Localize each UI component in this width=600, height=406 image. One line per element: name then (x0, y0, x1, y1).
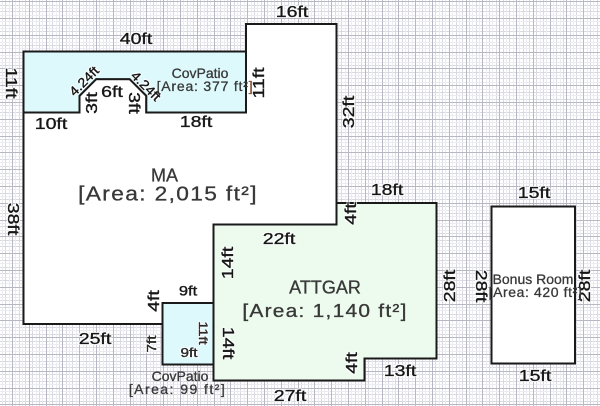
room Bonus Room (492, 207, 576, 364)
dimension label 18ft at (386.5,190.5) (370, 182, 403, 200)
dimension label 4.24ft at (146,85.5) (128, 68, 164, 104)
dimension label 3ft at (92.5,103) (84, 92, 102, 114)
dimension label 4ft at (352,214) (343, 203, 361, 225)
room label [Area: 377 ft² at (205,85.5) (157, 78, 254, 94)
dimension label 14ft at (227,343) (218, 327, 236, 360)
dimension label 4ft at (352.5,363) (344, 352, 362, 374)
dimension label 10ft at (51,124.5) (35, 116, 68, 134)
room label Bonus Room at (533,278.5) (493, 271, 574, 287)
room ATTGAR (green) (214, 203, 437, 381)
room label [Area: 2,015 ft²] at (168,195) (78, 184, 258, 207)
dimension label 28ft at (480,285.5) (471, 269, 489, 302)
dimension label 15ft at (535,377) (519, 368, 552, 386)
dimension label 4.24ft at (84,80.5) (66, 63, 102, 99)
room CovPatio top (cyan) (24, 52, 247, 113)
dimension label 13ft at (400,372) (384, 363, 417, 381)
room MA outline (24, 24, 337, 324)
dimension label 25ft at (94.5,339.5) (78, 331, 111, 349)
dimension label 7ft at (151.5,343.5) (145, 335, 159, 352)
dimension label 18ft at (196,122.5) (180, 114, 213, 132)
room label ATTGAR at (325,288) (289, 278, 361, 299)
dimension label 16ft at (292,12.5) (276, 4, 309, 22)
room label [Area: 1,140 ft²] at (324.5,310.5) (242, 300, 407, 322)
dimension label 11ft at (260,82.5) (251, 67, 269, 98)
dimension label 4ft at (154.5,300.5) (146, 290, 164, 312)
dimension label 40ft at (136,39.5) (120, 31, 153, 49)
dimension label 11ft at (202.5,332.5) (196, 321, 210, 344)
dimension label 6ft at (112,92.5) (101, 84, 123, 102)
dimension label 32ft at (350,111.5) (341, 95, 359, 128)
dimension label 14ft at (228.5,263) (220, 247, 238, 280)
dimension label 15ft at (533.5,194) (517, 185, 550, 203)
dimension label 9ft at (189,352.5) (181, 346, 198, 360)
room label MA at (164.5,175.5) (151, 165, 178, 186)
room label CovPatio at (180,376) (152, 368, 209, 384)
dimension label 28ft at (451,285.5) (442, 269, 460, 302)
dimension label 9ft at (187.5,290.5) (178, 283, 196, 298)
room CovPatio bottom (cyan box) (163, 303, 214, 365)
dimension label 27ft at (289.5,396.5) (273, 388, 306, 406)
dimension label 22ft at (278.5,239.5) (262, 231, 295, 249)
dimension label 38ft at (12,218.5) (3, 202, 21, 235)
dimension label 11ft at (9.5,82.5) (1, 67, 19, 98)
room label CovPatio at (200,73) (172, 65, 229, 81)
dimension label 3ft at (133,103) (124, 92, 142, 114)
room label [Area: 420 ft²] at (535.5,292) (489, 284, 583, 300)
dimension label 28ft at (585.5,285.5) (577, 269, 595, 302)
room label [Area: 99 ft²] at (177.5,388.5) (129, 381, 226, 397)
